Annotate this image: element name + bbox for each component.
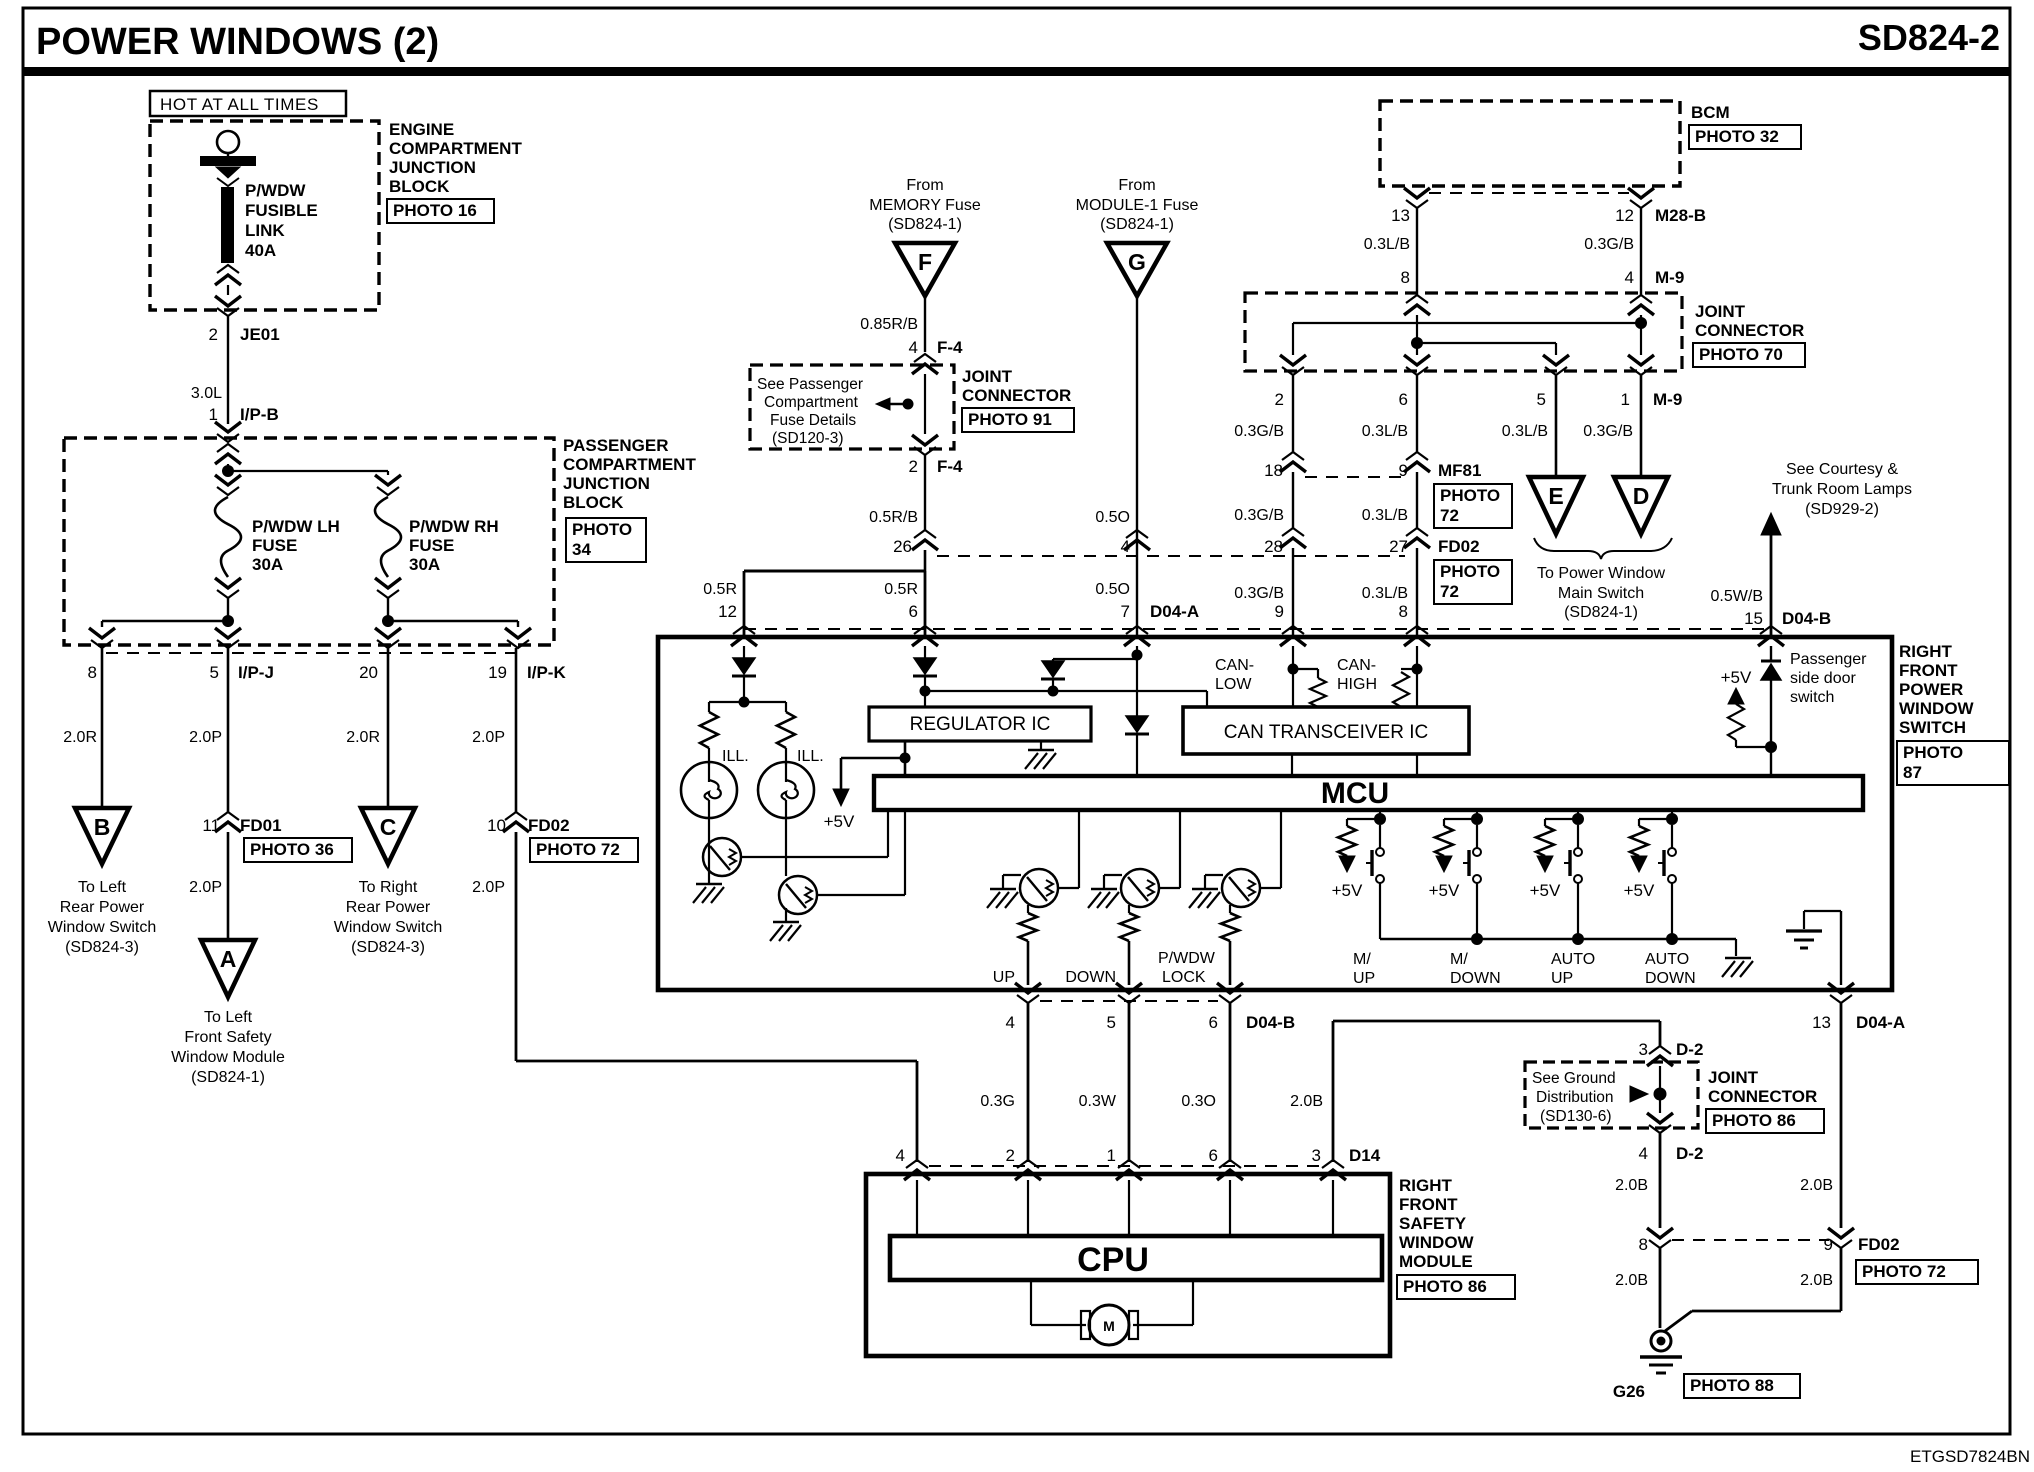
svg-text:E: E [1548, 483, 1563, 509]
transistor Q3 UP driver [1058, 887, 1079, 889]
svg-text:2.0R: 2.0R [346, 729, 380, 746]
wire 2.0B to ground G26 right [1840, 1248, 1843, 1311]
svg-text:2: 2 [1006, 1146, 1015, 1165]
right front power window switch box [658, 637, 1892, 990]
switch input AUTODOWN pull-up [1671, 810, 1673, 819]
svg-text:Fuse Details: Fuse Details [770, 412, 856, 429]
svg-text:LOW: LOW [1215, 676, 1252, 693]
svg-text:I/P-B: I/P-B [240, 405, 279, 424]
wire 0.3G/B from BCM 12 [1640, 208, 1642, 295]
driver wire P/WDW LOCK [1280, 810, 1282, 888]
wire 0.3O [1229, 1003, 1232, 1162]
svg-text:To Left: To Left [78, 879, 127, 896]
svg-text:SWITCH: SWITCH [1899, 718, 1966, 737]
wire 2.0B below D-2 [1659, 1133, 1662, 1228]
connector FD02 pin 26 [914, 530, 936, 538]
switch input AUTOUP pull-up [1577, 810, 1579, 819]
svg-text:0.3G/B: 0.3G/B [1584, 236, 1634, 253]
wire 0.85R/B [924, 296, 926, 352]
transistor Q4 DOWN driver [1159, 887, 1180, 889]
box edge chevrons pin 15 [1760, 626, 1782, 634]
module internal wires to CPU [916, 1180, 918, 1236]
svg-text:8: 8 [1399, 602, 1408, 621]
connector FD02 pin 27 [1406, 528, 1428, 536]
connector chevrons F-4 pin 4 [914, 354, 936, 362]
box edge chevrons pin 9 CAN-LOW [1282, 626, 1304, 634]
svg-text:27: 27 [1389, 537, 1408, 556]
svg-text:11: 11 [202, 816, 220, 835]
svg-text:From: From [1118, 177, 1155, 194]
connector row dashed D04-A/D04-B [744, 628, 1770, 630]
svg-text:Main Switch: Main Switch [1558, 585, 1644, 602]
battery terminal circle [217, 131, 239, 153]
block exit chevrons pin 8 [89, 628, 115, 638]
svg-text:MEMORY Fuse: MEMORY Fuse [869, 197, 981, 214]
CAN TRANSCEIVER IC box [1183, 707, 1469, 754]
wire 0.5W/B [1770, 532, 1773, 637]
wire into diode on pin 6 [924, 646, 926, 658]
chevrons exiting M-9 pin 5 [1543, 355, 1569, 365]
svg-text:WINDOW: WINDOW [1399, 1233, 1475, 1252]
svg-text:(SD824-3): (SD824-3) [351, 939, 425, 956]
svg-text:13: 13 [1391, 206, 1410, 225]
triangle connector F [895, 243, 955, 296]
svg-text:+5V: +5V [1624, 881, 1655, 900]
lamp right ILL [785, 748, 787, 765]
svg-text:5: 5 [210, 663, 219, 682]
svg-text:6: 6 [1209, 1146, 1218, 1165]
svg-text:D04-A: D04-A [1150, 602, 1199, 621]
module top chevrons pin 2 D14 [1017, 1160, 1039, 1168]
svg-text:See Passenger: See Passenger [757, 376, 863, 393]
svg-text:COMPARTMENT: COMPARTMENT [389, 139, 522, 158]
svg-text:8: 8 [1401, 268, 1410, 287]
svg-text:side door: side door [1790, 670, 1856, 687]
svg-text:4: 4 [1625, 268, 1634, 287]
svg-text:(SD130-6): (SD130-6) [1540, 1108, 1612, 1125]
diode D2 on memory feed 2 [914, 658, 936, 674]
transistor Q5 LOCK driver [1260, 887, 1281, 889]
regulator ground pin [1040, 741, 1042, 750]
wire [387, 598, 389, 621]
svg-text:3: 3 [1639, 1040, 1648, 1059]
box edge chevrons pin 8 CAN-HIGH [1406, 626, 1428, 634]
svg-text:19: 19 [488, 663, 507, 682]
svg-text:(SD824-1): (SD824-1) [191, 1069, 265, 1086]
svg-text:PHOTO 86: PHOTO 86 [1712, 1111, 1796, 1130]
wire 2.0P to A [227, 832, 230, 940]
svg-text:D-2: D-2 [1676, 1040, 1703, 1059]
svg-text:3: 3 [1312, 1146, 1321, 1165]
svg-text:PHOTO 86: PHOTO 86 [1403, 1277, 1487, 1296]
svg-text:G: G [1128, 249, 1146, 275]
svg-text:87: 87 [1903, 763, 1922, 782]
switch input M/DOWN pull-up [1476, 810, 1478, 819]
block exit chevrons pin 5 [227, 621, 229, 627]
title separator bar [23, 67, 2010, 76]
right front safety window module box [866, 1174, 1390, 1356]
svg-text:12: 12 [1615, 206, 1634, 225]
PHOTO 72 box (bottom) [1856, 1260, 1978, 1284]
svg-text:switch: switch [1790, 689, 1834, 706]
lamp left ILL [708, 748, 710, 765]
wire through joint connector [924, 374, 926, 434]
svg-text:P/WDW: P/WDW [1158, 950, 1216, 967]
wire 0.3G/B 28 to CAN-LOW pin 9 [1292, 548, 1294, 637]
triangle connector A [201, 940, 255, 997]
svg-text:2.0B: 2.0B [1615, 1177, 1648, 1194]
label box HOT AT ALL TIMES [150, 91, 346, 116]
wire 0.3G/B to pin 18 [1292, 375, 1294, 452]
wire to pin 19 [388, 620, 518, 622]
PHOTO 36 box [244, 838, 352, 862]
PHOTO 86 box (D-2) [1706, 1109, 1824, 1133]
svg-text:CONNECTOR: CONNECTOR [962, 386, 1071, 405]
svg-text:D-2: D-2 [1676, 1144, 1703, 1163]
connector MF81 pin 9 [1406, 452, 1428, 460]
switch M/DOWN [1476, 825, 1478, 848]
svg-text:+5V: +5V [824, 812, 855, 831]
svg-text:P/WDW: P/WDW [245, 181, 306, 200]
chevrons exiting M-9 pin 2 [1280, 355, 1306, 365]
svg-text:2: 2 [1275, 390, 1284, 409]
chevrons exiting M-9 pin 6 [1404, 355, 1430, 365]
wire 0.5R/B [924, 455, 926, 530]
svg-text:JE01: JE01 [240, 325, 280, 344]
svg-text:I/P-K: I/P-K [527, 663, 566, 682]
junction dot CAN-HIGH [1412, 664, 1423, 675]
svg-text:6: 6 [1399, 390, 1408, 409]
switch AUTODOWN [1671, 825, 1673, 848]
Q3 base and ground [1003, 874, 1021, 876]
svg-text:PHOTO 32: PHOTO 32 [1695, 127, 1779, 146]
triangle connector D [1614, 477, 1668, 534]
svg-text:4: 4 [1006, 1013, 1015, 1032]
svg-text:1: 1 [1621, 390, 1630, 409]
svg-text:(SD824-1): (SD824-1) [1100, 216, 1174, 233]
svg-text:POWER WINDOWS (2): POWER WINDOWS (2) [36, 21, 439, 63]
box bottom chevrons pin 5 D04-B [1116, 983, 1142, 993]
svg-text:HIGH: HIGH [1337, 676, 1377, 693]
svg-text:Passenger: Passenger [1790, 651, 1867, 668]
diode D4 on module feed [1126, 716, 1148, 732]
svg-text:M: M [1103, 1318, 1115, 1334]
svg-text:28: 28 [1264, 537, 1283, 556]
ground below Q1 [708, 872, 710, 884]
svg-text:72: 72 [1440, 506, 1459, 525]
Q5 base and ground [1205, 874, 1223, 876]
svg-text:2.0P: 2.0P [472, 879, 505, 896]
connector M28-B dashed row [1429, 192, 1629, 194]
M-9 internal branch to pin 2 [1293, 322, 1641, 324]
svg-text:JOINT: JOINT [1708, 1068, 1759, 1087]
svg-text:LINK: LINK [245, 221, 285, 240]
svg-text:To Left: To Left [204, 1009, 253, 1026]
P/WDW LH fuse 30A [215, 497, 241, 577]
Q1 base wire to MCU [741, 856, 888, 858]
svg-text:7: 7 [1121, 602, 1130, 621]
wire through D-2 [1659, 1066, 1661, 1113]
connector D-2 pin 4 [1647, 1113, 1673, 1123]
wire [227, 285, 229, 295]
Q5 emitter resistor [1229, 905, 1231, 913]
svg-text:JUNCTION: JUNCTION [389, 158, 476, 177]
wire 0.3L/B from BCM 13 [1416, 208, 1418, 295]
svg-text:M28-B: M28-B [1655, 206, 1706, 225]
svg-text:UP: UP [993, 969, 1015, 986]
svg-text:B: B [94, 814, 111, 840]
triangle connector E [1529, 477, 1583, 534]
wire 2.0P to D14 pin 4 [515, 832, 518, 1061]
wire to RH fuse [228, 470, 388, 472]
svg-text:Window Switch: Window Switch [334, 919, 442, 936]
svg-text:0.3G/B: 0.3G/B [1234, 423, 1284, 440]
svg-text:0.3G: 0.3G [980, 1093, 1015, 1110]
svg-text:JOINT: JOINT [962, 367, 1013, 386]
chevrons entering M-9 pin 4 [1630, 295, 1652, 303]
driver wire DOWN [1179, 810, 1181, 888]
wire pin 15 into MCU [1770, 646, 1772, 661]
svg-text:2.0P: 2.0P [472, 729, 505, 746]
svg-text:0.3G/B: 0.3G/B [1234, 507, 1284, 524]
svg-text:POWER: POWER [1899, 680, 1963, 699]
wire 0.3L/B to pin 9 [1416, 375, 1418, 452]
svg-text:UP: UP [1353, 970, 1375, 987]
diode passenger side door switch [1761, 660, 1781, 663]
wire [227, 598, 229, 621]
junction dot door switch pullup [1765, 741, 1777, 753]
svg-text:UP: UP [1551, 970, 1573, 987]
svg-text:G26: G26 [1613, 1382, 1645, 1401]
motor M [1030, 1280, 1032, 1325]
svg-text:+5V: +5V [1721, 668, 1752, 687]
svg-text:PASSENGER: PASSENGER [563, 436, 669, 455]
M-9 internal wire 8 [1416, 315, 1418, 355]
module top chevrons pin 3 D14 [1322, 1160, 1344, 1168]
svg-text:0.3L/B: 0.3L/B [1502, 423, 1548, 440]
block exit chevrons pin 20 [387, 621, 389, 627]
wire 0.3G/B to D [1640, 375, 1643, 477]
svg-text:18: 18 [1264, 461, 1283, 480]
PHOTO 87 box [1897, 741, 2009, 785]
svg-text:FD01: FD01 [240, 816, 282, 835]
CAN-LOW terminating resistor [1293, 668, 1318, 670]
svg-text:(SD824-1): (SD824-1) [888, 216, 962, 233]
chevrons exiting M-9 pin 1 [1628, 355, 1654, 365]
REGULATOR IC box [869, 707, 1091, 741]
svg-text:BLOCK: BLOCK [389, 177, 450, 196]
PHOTO 91 box [962, 408, 1074, 432]
svg-text:PHOTO: PHOTO [1440, 486, 1500, 505]
connector chevrons below fusible link [217, 265, 239, 273]
PHOTO 70 box [1693, 343, 1805, 367]
wire 3.0L [227, 316, 229, 424]
svg-text:LOCK: LOCK [1162, 969, 1206, 986]
wire 0.3L/B 27 to CAN-HIGH pin 8 [1416, 548, 1418, 637]
svg-text:Front Safety: Front Safety [184, 1029, 271, 1046]
svg-text:0.3G/B: 0.3G/B [1583, 423, 1633, 440]
chevrons below LH fuse [215, 578, 241, 588]
svg-text:(SD929-2): (SD929-2) [1805, 501, 1879, 518]
svg-text:5: 5 [1537, 390, 1546, 409]
PHOTO 72 box (FD02) [1434, 560, 1512, 604]
wire pin 7 into MCU [1136, 646, 1138, 655]
svg-text:Distribution: Distribution [1536, 1089, 1614, 1106]
svg-text:D: D [1633, 483, 1650, 509]
svg-text:PHOTO: PHOTO [572, 520, 632, 539]
arrow and dot in D-2 [1630, 1086, 1648, 1102]
wire 2.0R to C [387, 648, 390, 808]
svg-text:DOWN: DOWN [1065, 969, 1116, 986]
junction dot diode-OR [1048, 686, 1059, 697]
svg-text:F-4: F-4 [937, 457, 963, 476]
svg-text:(SD824-1): (SD824-1) [1564, 604, 1638, 621]
svg-text:0.85R/B: 0.85R/B [860, 316, 918, 333]
svg-text:FUSIBLE: FUSIBLE [245, 201, 318, 220]
svg-text:0.5O: 0.5O [1095, 509, 1130, 526]
svg-text:8: 8 [1639, 1235, 1648, 1254]
M-9 internal branch to pin 5 [1417, 342, 1556, 344]
svg-text:Window Module: Window Module [171, 1049, 285, 1066]
wire F to junction split [924, 550, 927, 571]
svg-text:0.3L/B: 0.3L/B [1364, 236, 1410, 253]
svg-text:Rear Power: Rear Power [346, 899, 431, 916]
connector FD01 pin 11 [217, 812, 239, 820]
svg-text:2.0P: 2.0P [189, 879, 222, 896]
transistor Q2 right ILL driver [785, 818, 787, 876]
box edge chevrons pin 12 [733, 626, 755, 634]
svg-text:30A: 30A [252, 555, 283, 574]
resistor right ILL [777, 712, 795, 748]
svg-text:2.0B: 2.0B [1615, 1272, 1648, 1289]
svg-text:0.3G/B: 0.3G/B [1234, 585, 1284, 602]
svg-text:FRONT: FRONT [1399, 1195, 1458, 1214]
svg-text:PHOTO 72: PHOTO 72 [536, 840, 620, 859]
wire 0.3G [1027, 1003, 1030, 1162]
connector chevrons at block exit JE01 [215, 296, 241, 306]
svg-text:See Courtesy &: See Courtesy & [1786, 461, 1898, 478]
wire [743, 676, 745, 702]
wire DOWN to pin 5 [1128, 941, 1131, 985]
Q2 base wire to MCU [817, 894, 905, 896]
PHOTO 34 box [566, 518, 646, 562]
switch input M/UP pull-up [1379, 810, 1381, 819]
CAN-HIGH terminating resistor [1401, 668, 1417, 670]
svg-text:Rear Power: Rear Power [60, 899, 145, 916]
svg-text:+5V: +5V [1429, 881, 1460, 900]
wire 0.3L/B 9 to 27 [1416, 472, 1418, 528]
svg-text:D04-B: D04-B [1782, 609, 1831, 628]
P/WDW fusible link 40A element [221, 187, 234, 263]
connector MF81 dashed row [1305, 476, 1405, 478]
svg-text:Window Switch: Window Switch [48, 919, 156, 936]
svg-text:FD02: FD02 [1438, 537, 1480, 556]
wire CAN-HIGH into transceiver [1416, 646, 1418, 707]
svg-text:D04-B: D04-B [1246, 1013, 1295, 1032]
svg-text:RIGHT: RIGHT [1399, 1176, 1453, 1195]
svg-text:34: 34 [572, 540, 591, 559]
junction node below RH fuse [382, 615, 394, 627]
block exit chevrons pin 19 [505, 628, 531, 638]
svg-text:M-9: M-9 [1655, 268, 1684, 287]
svg-text:D14: D14 [1349, 1146, 1381, 1165]
svg-text:To Right: To Right [359, 879, 418, 896]
svg-text:FUSE: FUSE [409, 536, 454, 555]
module top chevrons pin 4 D14 [906, 1160, 928, 1168]
svg-text:M-9: M-9 [1653, 390, 1682, 409]
svg-text:PHOTO 36: PHOTO 36 [250, 840, 334, 859]
box edge chevrons pin 6 [914, 626, 936, 634]
connector FD02 pin 9 [1828, 1228, 1854, 1238]
connector row I/P-J I/P-K dashed [106, 652, 515, 654]
BCM pin chevrons 13 [1404, 188, 1430, 198]
svg-text:CAN-: CAN- [1215, 657, 1254, 674]
svg-text:CONNECTOR: CONNECTOR [1695, 321, 1804, 340]
wire 2.0P to FD02 [515, 648, 518, 812]
box bottom chevrons pin 6 D04-B [1217, 983, 1243, 993]
switch common bus [1380, 938, 1736, 940]
svg-text:Trunk Room Lamps: Trunk Room Lamps [1772, 481, 1912, 498]
+5V arrow from regulator [841, 757, 905, 760]
connector D-2 pin 3 [1649, 1046, 1671, 1054]
svg-text:1: 1 [1107, 1146, 1116, 1165]
svg-text:To Power Window: To Power Window [1537, 565, 1665, 582]
BCM pin chevrons 12 [1628, 188, 1654, 198]
internal ground flag to pin 13 [1804, 910, 1841, 912]
PHOTO 72 box (MF81) [1434, 484, 1512, 528]
wire 2.0B to D14 pin 3 [1332, 1021, 1335, 1162]
passenger compartment junction block (dashed) [64, 438, 554, 645]
svg-text:P/WDW LH: P/WDW LH [252, 517, 340, 536]
triangle connector B [75, 808, 129, 864]
svg-text:4: 4 [1639, 1144, 1648, 1163]
wire 0.3G/B 18 to 28 [1292, 472, 1294, 528]
wire [1770, 680, 1772, 776]
switch AUTOUP [1577, 825, 1579, 848]
svg-text:D04-A: D04-A [1856, 1013, 1905, 1032]
connector FD02 pin 8 [1647, 1228, 1673, 1238]
svg-text:3.0L: 3.0L [191, 385, 222, 402]
svg-text:AUTO: AUTO [1551, 951, 1595, 968]
fuse holder bar [200, 156, 256, 166]
wire LOCK to pin 6 [1229, 941, 1232, 985]
junction dot in joint connector [903, 399, 914, 410]
svg-text:2.0B: 2.0B [1290, 1093, 1323, 1110]
triangle connector G [1107, 243, 1167, 296]
svg-text:ILL.: ILL. [797, 748, 824, 765]
svg-text:AUTO: AUTO [1645, 951, 1689, 968]
svg-text:M/: M/ [1353, 951, 1371, 968]
svg-text:A: A [220, 946, 237, 972]
CPU box [890, 1236, 1382, 1280]
svg-text:12: 12 [718, 602, 737, 621]
M-9 internal junction dot on wire 8 [1411, 337, 1423, 349]
connector FD02 pin 28 [1282, 528, 1304, 536]
chevrons above RH fuse [375, 475, 401, 485]
svg-text:0.5R/B: 0.5R/B [869, 509, 918, 526]
svg-text:ETGSD7824BN: ETGSD7824BN [1910, 1447, 2030, 1466]
wire 2.0P to FD01 [227, 648, 230, 812]
wire [227, 464, 229, 471]
diode D1 on memory feed [733, 658, 755, 674]
arrow to fuse details [876, 398, 890, 410]
wire to pin 8 [102, 620, 228, 622]
svg-text:4: 4 [896, 1146, 905, 1165]
wire UP to pin 4 [1027, 941, 1030, 985]
wire 2.0B to ground G26 left [1659, 1248, 1662, 1328]
junction dot lamp feed [739, 697, 750, 708]
svg-text:PHOTO 70: PHOTO 70 [1699, 345, 1783, 364]
